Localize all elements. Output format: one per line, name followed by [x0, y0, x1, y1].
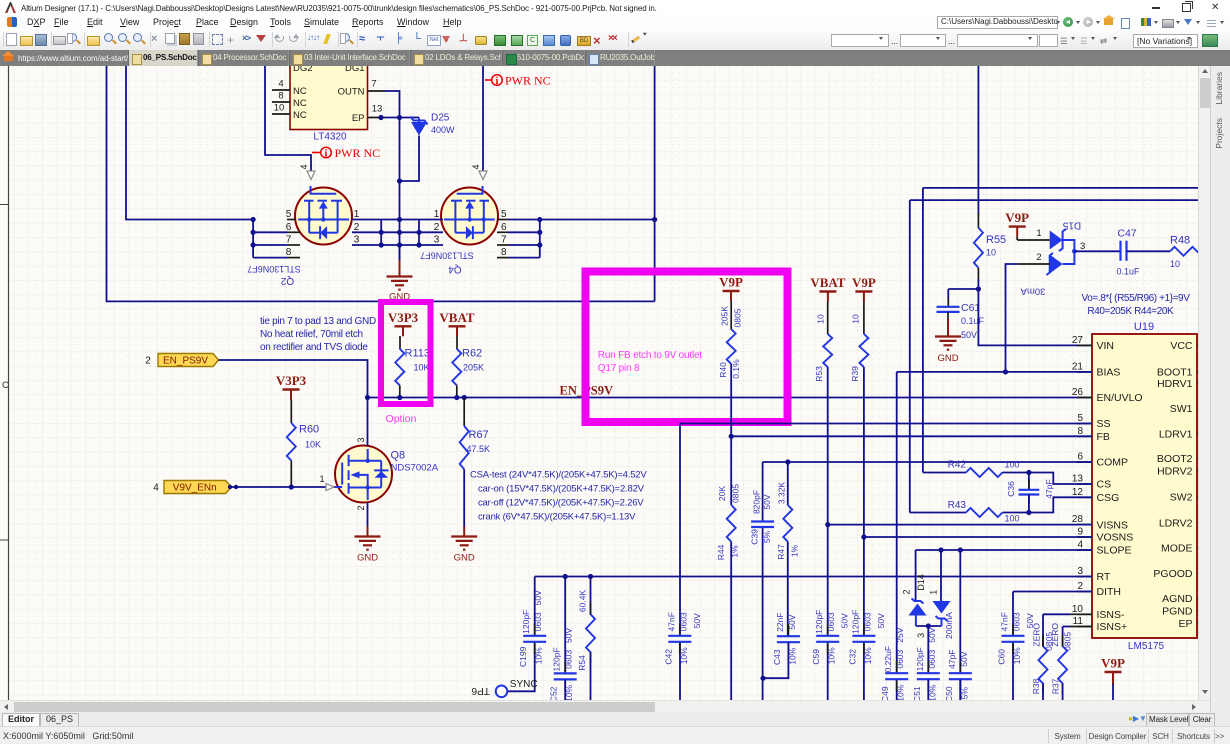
svg-text:C60: C60 — [997, 649, 1007, 665]
svg-text:10: 10 — [986, 248, 996, 258]
resistor R47 — [783, 505, 792, 542]
power port V9P b — [855, 290, 872, 292]
svg-text:120pF: 120pF — [814, 610, 824, 634]
svg-text:0603: 0603 — [533, 612, 543, 631]
U19 pin 11 ISNS+ — [1077, 626, 1092, 628]
svg-text:4: 4 — [1077, 540, 1083, 551]
COMP junction R47 — [785, 459, 790, 464]
svg-text:PGND: PGND — [1162, 605, 1193, 617]
svg-text:AGND: AGND — [1162, 593, 1193, 605]
svg-text:ISNS+: ISNS+ — [1097, 621, 1128, 633]
svg-text:C52: C52 — [549, 686, 559, 700]
U19 pin AGND — [1197, 597, 1204, 599]
svg-text:C43: C43 — [772, 649, 782, 665]
RT junction C199 — [563, 574, 568, 579]
diode D15 dual — [1050, 231, 1063, 250]
svg-text:V3P3: V3P3 — [388, 310, 419, 325]
EN_PS9V junction — [365, 395, 370, 400]
svg-text:NC: NC — [293, 86, 307, 97]
svg-text:1: 1 — [319, 474, 324, 484]
wire vertical x654 to Q4 row — [654, 66, 656, 301]
power port V9P top — [1009, 225, 1026, 227]
resistor R37 — [1062, 635, 1064, 647]
U19 pin PGOOD — [1197, 573, 1204, 575]
svg-text:V9V_ENn: V9V_ENn — [173, 483, 217, 494]
svg-text:2: 2 — [354, 222, 360, 233]
svg-text:3: 3 — [1080, 241, 1085, 252]
resistor R55 — [974, 228, 983, 268]
U19 pin 8 FB — [1077, 435, 1092, 437]
svg-text:100: 100 — [1005, 460, 1020, 470]
U19 pin HDRV1 — [1197, 383, 1204, 385]
svg-text:COMP: COMP — [1097, 457, 1129, 469]
U19 pin 28 VISNS — [1077, 524, 1092, 526]
Q4 gate arrow pin4 — [479, 171, 487, 180]
R67 top lead — [463, 398, 465, 427]
svg-text:21: 21 — [1072, 361, 1084, 372]
svg-text:5: 5 — [501, 209, 507, 220]
IC LT4320 body — [290, 52, 368, 130]
R39 lead — [863, 302, 865, 335]
wire ISNS+ — [1069, 626, 1092, 628]
U19 pin 2 DITH — [1077, 591, 1092, 593]
svg-text:4: 4 — [299, 164, 309, 169]
C51 tail — [927, 679, 929, 702]
U19 pin LDRV2 — [1197, 522, 1204, 524]
svg-text:R53: R53 — [814, 366, 824, 382]
wire BIAS — [897, 371, 1092, 373]
svg-text:1: 1 — [354, 209, 360, 220]
resistor R39 — [859, 334, 868, 367]
svg-text:LDRV1: LDRV1 — [1159, 428, 1193, 440]
BIAS junction D15 — [1003, 369, 1008, 374]
svg-text:PWR NC: PWR NC — [505, 74, 551, 88]
capacitor C49 — [896, 661, 898, 672]
svg-text:i: i — [496, 76, 499, 87]
svg-text:Option: Option — [386, 413, 417, 425]
resistor R44 — [727, 505, 736, 542]
svg-text:50V: 50V — [762, 494, 772, 509]
svg-text:R42: R42 — [948, 460, 967, 471]
svg-text:10: 10 — [816, 314, 826, 324]
R55 C61 junction — [976, 286, 981, 291]
svg-text:GND: GND — [454, 553, 475, 564]
svg-text:EN_PS9V: EN_PS9V — [163, 356, 208, 367]
svg-text:205K: 205K — [463, 363, 484, 373]
wire net A vertical x106 — [107, 66, 655, 301]
testpoint TP6 — [496, 686, 508, 698]
R53 wire down — [827, 367, 829, 636]
ground GND R67 — [463, 527, 465, 537]
power port V9P a — [723, 290, 740, 292]
Q2 designator STL130N6F7 — [247, 264, 301, 274]
wire BIAS corner down — [896, 372, 898, 673]
resistor R40 — [727, 329, 736, 364]
resistor R67 — [460, 426, 469, 469]
svg-text:FB: FB — [1097, 431, 1110, 443]
svg-text:50V: 50V — [927, 627, 937, 642]
svg-text:10%: 10% — [1012, 647, 1022, 664]
D14 wire to C51 — [927, 626, 929, 673]
R113 junction — [397, 395, 402, 400]
svg-text:NC: NC — [293, 110, 307, 121]
svg-text:VCC: VCC — [1170, 340, 1193, 352]
resistor R54 — [590, 603, 592, 615]
svg-text:GND: GND — [937, 353, 958, 364]
svg-text:10%: 10% — [534, 647, 544, 664]
svg-text:CSG: CSG — [1097, 492, 1120, 504]
C47 to R48 wire — [1127, 250, 1171, 252]
svg-text:5%: 5% — [762, 530, 772, 543]
svg-text:0603: 0603 — [1012, 612, 1022, 631]
U19 pin 12 CSG — [1077, 496, 1092, 498]
wire SLOPE — [916, 549, 1092, 551]
svg-text:10%: 10% — [827, 647, 837, 664]
svg-text:NDS7002A: NDS7002A — [391, 463, 439, 474]
svg-text:25V: 25V — [895, 627, 905, 642]
svg-text:3: 3 — [916, 633, 926, 638]
svg-text:R67: R67 — [469, 429, 489, 441]
U19 pin 9 VOSNS — [1077, 536, 1092, 538]
svg-text:1%: 1% — [789, 544, 799, 557]
resistor R53 — [823, 334, 832, 367]
annotation FB rect — [586, 272, 788, 423]
power port V3P3 — [395, 325, 412, 327]
svg-text:Q8: Q8 — [391, 450, 406, 462]
wire R47 column — [787, 462, 789, 505]
svg-text:50V: 50V — [1025, 613, 1035, 628]
svg-text:0603: 0603 — [826, 612, 836, 631]
U19 pin 5 SS — [1077, 423, 1092, 425]
R47 wire to C43 — [787, 542, 789, 636]
wire COMP corner down — [762, 462, 764, 522]
capacitor C32 — [863, 624, 865, 635]
U19 pin HDRV2 — [1197, 470, 1204, 472]
wire to Q2 gate — [265, 66, 311, 171]
capacitor C199 — [534, 624, 536, 635]
svg-text:CS: CS — [1097, 479, 1112, 491]
power port V9P bottom — [1105, 671, 1122, 673]
svg-text:EP: EP — [352, 113, 365, 124]
svg-text:R43: R43 — [948, 500, 967, 511]
svg-text:10: 10 — [1170, 259, 1180, 269]
capacitor C47 — [1119, 241, 1121, 261]
svg-text:120pF: 120pF — [850, 610, 860, 634]
wire SS corner down — [679, 424, 681, 636]
R67 bottom lead — [463, 469, 465, 528]
C50 tail — [959, 679, 961, 702]
svg-text:50V: 50V — [961, 330, 977, 340]
svg-text:0805: 0805 — [733, 308, 743, 327]
wire C199 column — [564, 577, 566, 674]
ground GND Q8 — [367, 527, 369, 537]
svg-text:5: 5 — [1077, 413, 1083, 424]
svg-text:tie pin 7 to pad 13 and GND: tie pin 7 to pad 13 and GND — [260, 316, 376, 327]
U19 pin PGND — [1197, 610, 1204, 612]
svg-text:6: 6 — [501, 222, 507, 233]
junction EP node — [378, 115, 383, 120]
wire to C61 — [948, 288, 978, 290]
svg-text:820pF: 820pF — [752, 490, 762, 514]
wire VISNS — [828, 524, 1092, 526]
R40 lead — [730, 301, 732, 330]
svg-text:0.22uF: 0.22uF — [883, 646, 893, 672]
wire SLOPE to D14 right — [940, 550, 942, 601]
svg-text:0603: 0603 — [678, 612, 688, 631]
U19 pin 3 RT — [1077, 576, 1092, 578]
svg-text:47.5K: 47.5K — [467, 444, 491, 454]
svg-text:MODE: MODE — [1161, 542, 1193, 554]
D15 pin3 wire — [1074, 250, 1120, 252]
U19 pin 27 VIN — [1077, 344, 1092, 346]
wire FB — [731, 435, 1092, 437]
Q4 refdes — [448, 264, 462, 275]
LT4320 pin 4 NC — [272, 89, 290, 91]
R62 lead — [456, 336, 458, 349]
sheet border — [8, 66, 10, 700]
svg-text:22nF: 22nF — [775, 613, 785, 632]
svg-text:0805: 0805 — [1062, 632, 1072, 651]
svg-text:OUTN: OUTN — [338, 87, 365, 98]
svg-text:50V: 50V — [959, 651, 969, 666]
svg-text:Q17 pin 8: Q17 pin 8 — [598, 363, 640, 374]
svg-text:C36: C36 — [1006, 481, 1016, 497]
svg-text:7: 7 — [501, 235, 507, 246]
R113 bottom lead — [399, 385, 401, 397]
svg-text:SS: SS — [1097, 418, 1111, 430]
wire RT — [535, 576, 1092, 578]
svg-text:car-on (15V*47.5K)/(205K+47.5: car-on (15V*47.5K)/(205K+47.5K)=2.82V — [478, 484, 645, 495]
LT4320 pin 10 NC — [272, 113, 290, 115]
svg-text:V9P: V9P — [1005, 210, 1029, 225]
svg-text:BIAS: BIAS — [1097, 367, 1121, 379]
svg-text:R44: R44 — [716, 544, 726, 560]
svg-text:D14: D14 — [916, 574, 926, 591]
V9V_ENn dots — [234, 485, 238, 489]
LT4320 pin 13 EP — [368, 117, 386, 119]
svg-text:HDRV2: HDRV2 — [1157, 466, 1193, 478]
svg-text:NC: NC — [293, 98, 307, 109]
U19 pin 13 CS — [1077, 483, 1092, 485]
svg-text:HDRV1: HDRV1 — [1157, 378, 1193, 390]
wire EN_PS9V port — [219, 360, 368, 398]
resistor R48 — [1170, 247, 1206, 256]
svg-text:LDRV2: LDRV2 — [1159, 518, 1193, 530]
wire VIN rail corner — [922, 188, 924, 473]
wire R55 top — [977, 66, 979, 215]
svg-text:1: 1 — [434, 209, 440, 220]
svg-text:50V: 50V — [787, 614, 797, 629]
Q8 pin3 wire — [367, 398, 369, 447]
svg-text:0603: 0603 — [895, 649, 905, 668]
svg-text:SW2: SW2 — [1170, 491, 1193, 503]
Q8 gate arrow — [326, 484, 334, 491]
svg-text:60.4K: 60.4K — [578, 590, 588, 613]
ground GND C61 — [947, 327, 949, 337]
R62 bottom lead — [456, 385, 458, 397]
svg-text:PWR NC: PWR NC — [335, 146, 381, 160]
capacitor C61 — [937, 306, 960, 308]
wire RT corner — [534, 577, 536, 636]
U19 pin EP — [1197, 622, 1204, 624]
U19 pin BOOT1 — [1197, 371, 1204, 373]
R62 junction — [454, 395, 459, 400]
svg-text:SLOPE: SLOPE — [1097, 545, 1132, 557]
svg-text:V9P: V9P — [1101, 656, 1125, 671]
svg-text:R40=205K R44=20K: R40=205K R44=20K — [1087, 306, 1174, 317]
svg-text:R55: R55 — [986, 234, 1006, 246]
transistor Q4 — [441, 188, 498, 245]
R37 lead — [1062, 684, 1064, 703]
power port VBAT b — [819, 290, 836, 292]
R38 lead — [1042, 684, 1044, 703]
svg-text:10: 10 — [274, 103, 285, 114]
svg-text:47pF: 47pF — [947, 650, 957, 669]
R55 lead a — [977, 213, 979, 228]
svg-text:R40: R40 — [718, 362, 728, 378]
svg-text:50V: 50V — [692, 613, 702, 628]
svg-text:6: 6 — [1077, 452, 1083, 463]
svg-text:4: 4 — [471, 164, 481, 169]
D15 designator — [1062, 219, 1081, 230]
svg-text:R37: R37 — [1051, 678, 1061, 694]
wire D25 to node — [400, 136, 420, 182]
svg-text:2: 2 — [434, 222, 440, 233]
op-amp U19 body — [1092, 334, 1197, 638]
RT junction R54 — [588, 574, 593, 579]
svg-text:R60: R60 — [299, 424, 319, 436]
svg-text:LT4320: LT4320 — [313, 132, 347, 143]
svg-text:2: 2 — [356, 505, 366, 510]
svg-text:3.32K: 3.32K — [777, 482, 787, 505]
TP6 refdes — [471, 685, 490, 696]
wire ISNS- — [1069, 613, 1092, 615]
svg-text:VOSNS: VOSNS — [1097, 532, 1134, 544]
Q4 source pins 5-8 ladder — [539, 220, 541, 258]
svg-text:Q4: Q4 — [448, 264, 462, 275]
svg-text:GND: GND — [357, 553, 378, 564]
resistor R113 — [395, 349, 404, 386]
R44 wire down — [730, 542, 732, 702]
capacitor C52 — [564, 661, 566, 672]
svg-text:BOOT1: BOOT1 — [1157, 367, 1193, 379]
svg-text:2: 2 — [1036, 252, 1041, 263]
wire rail2 corner — [909, 200, 911, 512]
svg-text:D25: D25 — [431, 113, 450, 124]
wire DITH — [1013, 591, 1092, 593]
wire DITH corner — [1012, 592, 1014, 636]
no-ERC PWR NC right — [485, 79, 492, 81]
U19 pin BOOT2 — [1197, 457, 1204, 459]
svg-text:V9P: V9P — [719, 275, 743, 290]
R43 junction C36 — [1026, 510, 1031, 515]
wire EP to D25 — [385, 117, 419, 119]
resistor R38 — [1042, 635, 1044, 647]
U19 pin 6 COMP — [1077, 461, 1092, 463]
svg-text:1: 1 — [929, 590, 939, 595]
svg-text:PGOOD: PGOOD — [1153, 568, 1193, 580]
svg-text:120pF: 120pF — [915, 647, 925, 671]
svg-text:car-off (12V*47.5K)/(205K+47.5: car-off (12V*47.5K)/(205K+47.5K)=2.26V — [478, 498, 644, 509]
FB junction R40 — [729, 434, 734, 439]
svg-text:V9P: V9P — [852, 275, 876, 290]
svg-text:VBAT: VBAT — [439, 310, 474, 325]
svg-text:CSA-test (24V*47.5K)/(205K+47.: CSA-test (24V*47.5K)/(205K+47.5K)=4.52V — [470, 470, 647, 481]
svg-text:47nF: 47nF — [1000, 612, 1010, 631]
svg-text:Run FB etch to 9V outlet: Run FB etch to 9V outlet — [598, 350, 703, 361]
svg-text:C199: C199 — [518, 646, 528, 667]
svg-text:C50: C50 — [944, 686, 954, 700]
svg-text:2: 2 — [902, 589, 912, 594]
svg-text:RT: RT — [1097, 571, 1111, 583]
svg-text:VIN: VIN — [1097, 340, 1115, 352]
svg-text:47pF: 47pF — [1044, 479, 1054, 498]
svg-text:10: 10 — [851, 314, 861, 324]
svg-text:11: 11 — [1073, 616, 1084, 627]
R42 junction C36 — [1026, 470, 1031, 475]
U19 pin SW1 — [1197, 407, 1204, 409]
wire SLOPE to D14 left — [915, 550, 917, 600]
svg-text:10%: 10% — [863, 647, 873, 664]
junction D25 node — [397, 178, 402, 183]
svg-text:6: 6 — [286, 222, 292, 233]
svg-text:3: 3 — [354, 235, 360, 246]
svg-text:1: 1 — [1036, 228, 1041, 239]
svg-text:0603: 0603 — [927, 649, 937, 668]
wire COMP — [763, 461, 1092, 463]
center node dots — [397, 217, 402, 222]
svg-text:No heat relief, 70mil etch: No heat relief, 70mil etch — [260, 329, 363, 340]
R39 wire down — [863, 367, 865, 636]
svg-text:10K: 10K — [305, 440, 321, 450]
Q2 refdes — [280, 275, 294, 286]
resistor R43 row — [910, 512, 966, 514]
LT4320 pin 8 NC — [272, 101, 290, 103]
svg-text:4: 4 — [153, 483, 159, 494]
svg-text:C51: C51 — [912, 686, 922, 700]
annotation Option rect — [381, 302, 431, 404]
svg-text:ZERO: ZERO — [1050, 623, 1060, 647]
svg-text:30mA: 30mA — [1020, 285, 1045, 296]
svg-text:0603: 0603 — [862, 612, 872, 631]
svg-text:R113: R113 — [405, 348, 430, 360]
diode D14 dual — [912, 599, 924, 604]
svg-text:C61: C61 — [961, 302, 980, 314]
R40 lower wire — [730, 364, 732, 505]
resistor R60 — [287, 423, 296, 461]
svg-text:C32: C32 — [847, 649, 857, 665]
Q2 source pins 5-8 ladder — [252, 220, 254, 258]
svg-text:0.1uF: 0.1uF — [1116, 267, 1140, 277]
Q4 drain pins 1-3 — [418, 220, 420, 246]
capacitor C39 — [751, 520, 774, 522]
svg-text:20K: 20K — [717, 486, 727, 501]
svg-text:U19: U19 — [1134, 321, 1154, 333]
svg-text:2: 2 — [1077, 581, 1083, 592]
power port V3P3 b — [283, 388, 300, 390]
junction x654 row1 — [652, 217, 657, 222]
svg-text:DG1: DG1 — [345, 66, 365, 74]
svg-text:9: 9 — [1077, 527, 1083, 538]
svg-text:10K: 10K — [414, 363, 430, 373]
R60 junction — [289, 484, 294, 489]
svg-text:2: 2 — [145, 356, 151, 367]
svg-text:R38: R38 — [1031, 678, 1041, 694]
U19 pin 21 BIAS — [1077, 371, 1092, 373]
svg-text:8: 8 — [286, 247, 292, 258]
U19 pin 4 SLOPE — [1077, 549, 1092, 551]
resistor R62 — [452, 349, 461, 386]
